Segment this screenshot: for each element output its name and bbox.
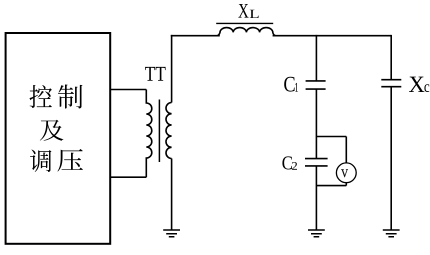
ground G2 xyxy=(308,230,325,237)
label 压 xyxy=(57,149,83,172)
ground G3 xyxy=(383,230,400,237)
capacitor C2 xyxy=(305,159,328,166)
label Xc xyxy=(409,77,429,92)
wire secondary top to rail xyxy=(171,35,173,103)
voltmeter V top lead xyxy=(345,137,347,164)
label XL xyxy=(238,4,258,18)
capacitor C1 xyxy=(306,81,326,89)
wire voltmeter bottom to C2 branch xyxy=(316,185,346,187)
wire box to transformer primary top xyxy=(111,89,147,91)
node A wire to voltmeter top xyxy=(316,136,346,138)
capacitor Xc xyxy=(381,80,401,87)
voltmeter V bottom lead xyxy=(345,183,347,186)
wire Xc to ground xyxy=(390,87,392,230)
wire secondary bottom to ground xyxy=(171,159,173,231)
label C1 xyxy=(284,77,298,92)
wire top rail left xyxy=(171,35,220,37)
wire C2 bottom to ground xyxy=(315,166,317,230)
wire C1 to node A xyxy=(315,89,317,159)
wire rail to C1 xyxy=(315,35,317,81)
label 及 xyxy=(40,120,64,141)
voltmeter V circle xyxy=(336,163,356,183)
control box (控制及调压) xyxy=(6,33,111,244)
inductor XL winding xyxy=(217,28,275,36)
inductor XL core bar xyxy=(216,22,273,24)
label 控 xyxy=(29,85,52,108)
wire rail corner to Xc xyxy=(390,35,392,80)
ground G1 xyxy=(163,230,180,237)
label 调 xyxy=(30,150,51,172)
wire transformer primary bottom to box xyxy=(111,176,147,178)
transformer core xyxy=(158,100,160,163)
transformer T1 primary winding xyxy=(146,90,152,178)
transformer T1 secondary winding xyxy=(166,103,172,159)
wire top rail right xyxy=(273,35,392,37)
label 制 xyxy=(58,84,83,108)
label C2 xyxy=(282,156,297,169)
label TT xyxy=(145,67,165,81)
voltmeter label V xyxy=(341,169,348,177)
